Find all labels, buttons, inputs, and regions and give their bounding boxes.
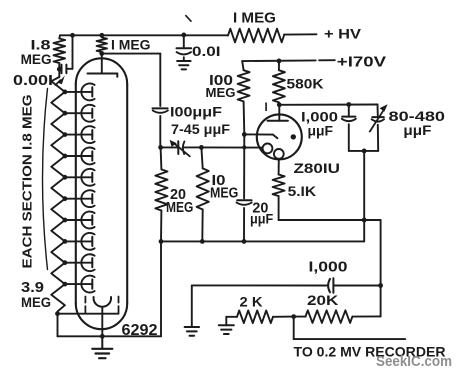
- dash left: [84, 297, 86, 313]
- svg-text:I MEG: I MEG: [111, 37, 151, 52]
- stray mark: [186, 16, 191, 22]
- label uuF (1,000): [308, 123, 334, 138]
- cathode lead: [101, 308, 103, 336]
- label 100 (MEG): [209, 73, 233, 89]
- node 0.01 tap: [181, 33, 186, 38]
- svg-text:EACH SECTION I.8 MEG: EACH SECTION I.8 MEG: [21, 95, 35, 269]
- svg-text:I00μμF: I00μμF: [170, 104, 223, 120]
- svg-text:0.00I: 0.00I: [13, 73, 53, 89]
- node chain bottom: [55, 311, 60, 316]
- node bus 10MEG: [200, 239, 205, 244]
- wire rect bottom: [349, 150, 378, 152]
- dynode 1: [65, 83, 95, 100]
- node grid tap: [242, 132, 247, 137]
- dynode 9: [65, 254, 95, 271]
- dynode 3: [65, 126, 95, 143]
- ground 0.01: [177, 61, 191, 69]
- svg-text:MEG: MEG: [210, 186, 238, 202]
- node dynode tap 9: [63, 260, 68, 265]
- wire plate lead: [278, 105, 280, 121]
- wire grid: [244, 134, 277, 138]
- wire rect drop: [363, 151, 365, 220]
- dynode 5: [65, 169, 95, 186]
- resistor divider chain (each section 1.8 MEG): [51, 77, 65, 314]
- svg-text:SeekIC.com: SeekIC.com: [376, 354, 452, 370]
- label pointer arrow 0.001: [56, 76, 65, 85]
- label 1,000 (series): [309, 260, 348, 276]
- label MEG (100): [206, 85, 236, 100]
- resistor 100 MEG: [238, 61, 250, 134]
- label EACH SECTION 1.8 MEG: [21, 95, 35, 269]
- svg-text:I MEG: I MEG: [233, 9, 276, 26]
- capacitor 0.001: [59, 35, 72, 73]
- wire 1000 cap row: [192, 284, 327, 286]
- label 580K: [287, 77, 324, 92]
- svg-text:I,000: I,000: [309, 260, 348, 276]
- anode electrode: [88, 54, 118, 77]
- node trimmer left: [158, 145, 163, 150]
- label 20 (uuF): [252, 201, 268, 217]
- wire bus left drop: [160, 241, 162, 336]
- wire 100MEG column: [243, 134, 245, 198]
- wire anode to grid column: [102, 54, 161, 106]
- pin circle 2: [274, 149, 284, 159]
- node dynode tap 2: [63, 111, 68, 116]
- wire trimmer right: [183, 146, 202, 148]
- label pin 1: [265, 102, 268, 114]
- svg-text:μμF: μμF: [403, 123, 431, 138]
- label 80-480: [389, 108, 446, 124]
- svg-text:7-45 μμF: 7-45 μμF: [171, 122, 230, 137]
- wire riser to bus: [363, 220, 365, 241]
- node dynode tap 1: [63, 90, 68, 95]
- label +170V: [337, 54, 387, 70]
- node 0.001 left: [57, 67, 62, 72]
- node bus 20MEG: [159, 239, 164, 244]
- resistor 20K: [294, 310, 381, 323]
- svg-text:+ HV: + HV: [324, 26, 362, 42]
- wire left rail corner: [58, 35, 61, 38]
- wire output drop: [294, 317, 406, 340]
- node grid-row crossing: [242, 145, 246, 149]
- svg-text:I: I: [265, 102, 268, 114]
- label 2K: [240, 294, 263, 310]
- plate electrode: [268, 120, 288, 122]
- label 20 (MEG): [170, 187, 186, 203]
- label 1 MEG (HV series): [233, 9, 276, 26]
- capacitor 1000 uuF: [342, 105, 356, 151]
- photocathode cup: [94, 297, 111, 307]
- label 1,000 (uuF): [301, 109, 338, 124]
- node dynode tap 10: [63, 282, 68, 287]
- svg-text:80-480: 80-480: [389, 108, 446, 124]
- dynode 7: [65, 212, 95, 229]
- wire right drop: [380, 220, 382, 316]
- wire trimmer left: [161, 146, 179, 148]
- label uuF (20): [250, 212, 273, 227]
- label MEG (10): [210, 186, 238, 202]
- node 0.001 branch top: [70, 33, 75, 38]
- capacitor 100 uuF: [153, 108, 168, 147]
- node anode-resistor top: [99, 33, 104, 38]
- node ground stem: [100, 334, 105, 339]
- node dynode tap 8: [63, 239, 68, 244]
- wire chain bottom drop: [57, 314, 59, 337]
- wire cathode row: [279, 219, 381, 221]
- label 0.01: [192, 43, 221, 59]
- svg-text:MEG: MEG: [21, 294, 51, 310]
- ground feedback: [185, 327, 200, 336]
- resistor 20 MEG: [155, 147, 167, 241]
- label 100uuF: [170, 104, 223, 120]
- svg-text:580K: 580K: [287, 77, 324, 92]
- dynode 2: [65, 105, 95, 122]
- capacitor 20 uuF: [237, 200, 252, 241]
- node anode: [99, 51, 104, 56]
- resistor R 1.8 MEG: [54, 39, 66, 64]
- trimmer capacitor 80-480: [370, 104, 388, 151]
- node feedback tap: [378, 283, 383, 288]
- resistor 1 MEG (HV series): [228, 29, 284, 43]
- label MEG (1.8): [21, 51, 52, 67]
- wire chain bottom to cathode: [58, 313, 119, 315]
- internal dot: [291, 134, 296, 139]
- bracket each-section: [43, 89, 48, 270]
- wire cathode bus: [161, 240, 364, 242]
- label I MEG (anode): [111, 37, 151, 52]
- wire to +HV: [284, 33, 317, 35]
- node cathode junction: [362, 218, 367, 223]
- svg-text:20K: 20K: [307, 292, 338, 308]
- node dynode tap 4: [63, 154, 68, 159]
- watermark SeekIC.com: [376, 354, 452, 370]
- label 6292: [122, 322, 158, 339]
- ground 2K: [219, 325, 234, 334]
- label 1.8: [31, 37, 52, 52]
- resistor 2K: [237, 311, 273, 324]
- svg-text:5.IK: 5.IK: [288, 183, 317, 199]
- label 10 (MEG): [212, 173, 226, 189]
- label Z801U: [294, 160, 341, 176]
- node dynode tap 7: [63, 218, 68, 223]
- svg-text:μμF: μμF: [250, 212, 273, 227]
- wire plate rail: [279, 104, 377, 106]
- wire top HV rail: [60, 34, 228, 36]
- node dynode tap 3: [63, 132, 68, 137]
- pin circle 1: [263, 144, 273, 154]
- label 0.001: [13, 73, 53, 89]
- svg-text:MEG: MEG: [206, 85, 236, 100]
- svg-text:2 K: 2 K: [240, 294, 263, 310]
- label uuF (80-480): [403, 123, 431, 138]
- trimmer capacitor 7-45 uuF: [170, 140, 190, 156]
- ground PMT: [92, 336, 112, 358]
- svg-text:0.0I: 0.0I: [192, 43, 221, 59]
- node rect bottom: [362, 149, 367, 154]
- dynode 10: [65, 276, 95, 293]
- wire 2K ground stub: [226, 317, 237, 325]
- label 20K: [307, 292, 338, 308]
- resistor 1 MEG (anode load): [97, 38, 107, 53]
- tube Z801U envelope: [257, 114, 302, 159]
- svg-text:μμF: μμF: [308, 123, 334, 138]
- wire feedback drop left: [191, 285, 193, 326]
- wire 170V rail: [242, 59, 335, 62]
- svg-text:MEG: MEG: [166, 200, 193, 216]
- node 580K top: [277, 59, 282, 64]
- wire grid row to tube: [201, 146, 262, 148]
- label 5.1K: [288, 183, 317, 199]
- node dynode tap 6: [63, 196, 68, 201]
- node 10MEG top: [199, 145, 204, 150]
- node dynode tap 5: [63, 175, 68, 180]
- label MEG (3.9): [21, 294, 51, 310]
- svg-text:+I70V: +I70V: [337, 54, 387, 70]
- wire 2K to node: [273, 316, 294, 318]
- resistor 5.1K: [273, 175, 285, 221]
- wire cathode lead: [278, 159, 280, 175]
- svg-text:Z80IU: Z80IU: [294, 160, 341, 176]
- capacitor 1,000 (series): [328, 278, 381, 292]
- wire 1.8MEG bottom to chain: [58, 63, 60, 77]
- node 1000uuF top: [346, 102, 351, 107]
- dynode 4: [65, 148, 95, 165]
- svg-text:MEG: MEG: [21, 51, 52, 67]
- resistor 10 MEG: [197, 147, 209, 241]
- resistor 580K: [273, 61, 285, 105]
- node bus 20uuF: [242, 239, 247, 244]
- label MEG (20): [166, 200, 193, 216]
- label 3.9: [21, 280, 44, 296]
- photomultiplier 6292 envelope: [76, 58, 127, 329]
- node plate: [277, 102, 282, 107]
- dynode 8: [65, 233, 95, 250]
- capacitor 0.01: [177, 35, 192, 61]
- label +HV: [324, 26, 362, 42]
- dynode 6: [65, 190, 95, 207]
- wire bottom bus: [58, 335, 162, 337]
- label TO 0.2 MV RECORDER: [294, 344, 446, 360]
- svg-text:I,000: I,000: [301, 109, 338, 124]
- dash right: [118, 297, 120, 313]
- node output: [291, 314, 296, 319]
- label 7-45 uuF: [171, 122, 230, 137]
